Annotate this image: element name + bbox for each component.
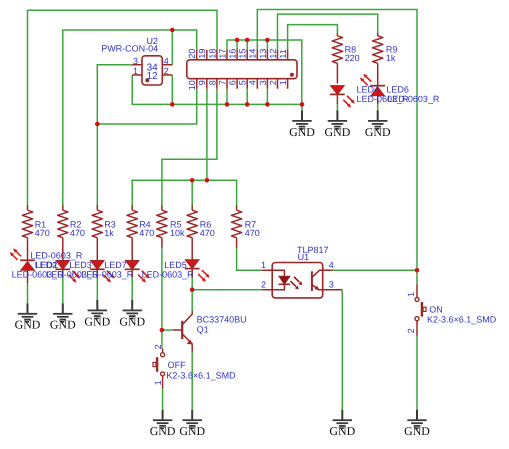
svg-text:19: 19: [197, 49, 207, 59]
wire Q1 emitter to GND: [191, 351, 193, 410]
wire header pin16 up to gnd line: [236, 40, 238, 50]
resistor R8: [336, 33, 338, 36]
svg-text:GND: GND: [404, 424, 430, 438]
op-amp U1 TLP817 optocoupler body: [272, 263, 323, 298]
junction pin16 / gnd line: [235, 38, 240, 43]
ground GND R3/LED3: [96, 300, 98, 310]
svg-text:1: 1: [406, 292, 416, 297]
LED LED2: [56, 261, 70, 270]
svg-text:2: 2: [268, 80, 278, 85]
LED LED3: [91, 261, 105, 270]
junction U2 pin2 / gnd bus: [170, 102, 175, 107]
wire U2 pin4 up to VCC2 line: [171, 30, 173, 65]
svg-text:1: 1: [133, 66, 138, 76]
wire U2 pin3 to R3 column: [97, 65, 132, 205]
wire LED1 to GND: [27, 282, 29, 303]
connector U2 PWR-CON-04: [142, 56, 162, 85]
svg-text:GND: GND: [15, 318, 41, 332]
LED LED4: [331, 86, 345, 95]
wire header pin3 to gnd bus: [266, 89, 268, 105]
switch OFF K2-3.6x6.1_SMD: [162, 349, 164, 353]
svg-text:ON: ON: [429, 304, 443, 314]
svg-text:2: 2: [153, 344, 163, 349]
svg-text:GND: GND: [325, 125, 351, 139]
junction gnd bus / GND: [300, 102, 305, 107]
svg-text:1: 1: [261, 260, 266, 270]
wire header pin10 down-left to R3 column: [97, 89, 196, 124]
svg-text:470: 470: [245, 228, 260, 238]
junction pin3 / gnd bus: [265, 102, 270, 107]
svg-text:9: 9: [197, 80, 207, 85]
junction R6 / mid bus: [190, 178, 195, 183]
wire mid bus R4/R6/pin9/R7: [132, 180, 236, 205]
wire header pin15 up to gnd line: [246, 40, 248, 50]
svg-text:GND: GND: [150, 424, 176, 438]
wire U1 pin4 right to opto node: [333, 269, 417, 271]
wire net VCC2: header pin20 up, across, down to R2: [63, 30, 197, 205]
wire LED3 to GND: [96, 277, 98, 300]
svg-text:K2-3.6×6.1_SMD: K2-3.6×6.1_SMD: [427, 315, 497, 325]
resistor R4: [131, 205, 133, 210]
wire gnd line over header pins 17-13 down to bus: [227, 40, 302, 110]
svg-text:10: 10: [187, 80, 197, 90]
svg-text:2: 2: [406, 328, 416, 333]
svg-text:K2-3.6×6.1_SMD: K2-3.6×6.1_SMD: [166, 370, 236, 380]
wire Q1 base: [162, 329, 173, 331]
svg-text:U1: U1: [298, 252, 310, 262]
U1 internal arrows: [294, 277, 299, 282]
svg-text:470: 470: [200, 228, 215, 238]
resistor R9: [377, 33, 379, 36]
U1 pin stubs: [262, 270, 342, 289]
svg-text:LED-0603_R: LED-0603_R: [387, 94, 440, 104]
transistor Q1 BC33740BU: [173, 329, 183, 331]
svg-text:4: 4: [248, 80, 258, 85]
resistor R6: [191, 205, 193, 210]
junction U1 pin4 / ON switch node: [415, 268, 420, 273]
wire header pin9 down to mid bus: [206, 89, 208, 181]
resistor R1: [27, 205, 29, 210]
wire LED4 to GND: [336, 104, 338, 111]
svg-text:GND: GND: [119, 314, 145, 328]
svg-text:3: 3: [133, 56, 138, 66]
svg-text:GND: GND: [179, 424, 205, 438]
svg-text:10k: 10k: [170, 228, 185, 238]
junction LED5 / U1 pin2 / Q1 collector: [190, 287, 195, 292]
svg-text:PWR-CON-04: PWR-CON-04: [101, 44, 158, 54]
svg-text:12: 12: [268, 49, 278, 59]
junction pin13 / gnd line: [265, 38, 270, 43]
svg-text:2: 2: [164, 66, 169, 76]
svg-text:OFF: OFF: [168, 360, 186, 370]
junction pin15 / gnd line: [245, 38, 250, 43]
wire U2 pin2 down to gnd bus: [171, 75, 173, 104]
svg-text:LED6: LED6: [386, 84, 409, 94]
wire net VCC1: header pin18 up, across top, down to R1: [28, 10, 218, 205]
wire R5 bottom to Q1 base node to OFF switch: [161, 248, 163, 349]
U1 phototransistor: [311, 271, 313, 291]
svg-text:GND: GND: [329, 424, 355, 438]
svg-text:4: 4: [164, 56, 169, 66]
ground GND R2/LED2: [62, 303, 64, 313]
wire R6 top from mid bus: [191, 180, 193, 205]
connector J1 20-pin header: [187, 60, 297, 79]
svg-text:GND: GND: [50, 318, 76, 332]
svg-text:3: 3: [329, 279, 334, 289]
svg-text:5: 5: [238, 80, 248, 85]
wire LED5 node down to Q1 collector: [191, 290, 193, 311]
svg-text:2: 2: [261, 279, 266, 289]
ground GND R8/LED4: [336, 110, 338, 120]
svg-text:16: 16: [228, 49, 238, 59]
ground GND ON switch: [416, 410, 418, 420]
wire LED7 to GND: [131, 277, 133, 300]
svg-text:470: 470: [70, 228, 85, 238]
ground GND U1 pin3: [341, 410, 343, 420]
resistor R2: [62, 205, 64, 210]
svg-text:1k: 1k: [386, 53, 396, 63]
junction pin7 / gnd bus: [225, 102, 230, 107]
wire gnd bus under U2/header: [132, 75, 302, 104]
svg-text:1: 1: [153, 380, 163, 385]
resistor R7: [236, 205, 238, 210]
resistor R5: [161, 205, 163, 210]
svg-text:LED-0603_R: LED-0603_R: [81, 269, 134, 279]
junction U2 pin4 / VCC2: [170, 28, 175, 33]
svg-text:13: 13: [258, 49, 268, 59]
wire header pin12 up and right to R9: [278, 14, 378, 50]
svg-text:3: 3: [258, 80, 268, 85]
junction pin9 / mid bus: [205, 178, 210, 183]
svg-text:1: 1: [278, 80, 288, 85]
svg-text:12: 12: [147, 71, 159, 82]
svg-text:Q1: Q1: [197, 324, 209, 334]
wire OFF switch pin1 to GND: [162, 389, 164, 410]
svg-text:220: 220: [345, 53, 360, 63]
ground GND header: [301, 110, 303, 120]
svg-text:LED4: LED4: [357, 84, 380, 94]
svg-text:1k: 1k: [104, 228, 114, 238]
svg-text:7: 7: [217, 80, 227, 85]
svg-text:GND: GND: [289, 125, 315, 139]
ground GND OFF switch: [162, 410, 164, 420]
ground GND R9/LED6: [377, 110, 379, 120]
LED LED7: [125, 261, 139, 270]
wire header pin8 down-left to R5: [162, 89, 217, 205]
svg-text:470: 470: [35, 228, 50, 238]
svg-text:LED-0603_R: LED-0603_R: [30, 251, 83, 261]
wire LED5 node to U1 pin2: [192, 277, 262, 290]
junction pin5 / gnd bus: [245, 102, 250, 107]
svg-text:GND: GND: [365, 125, 391, 139]
LED LED6: [371, 87, 385, 96]
wire R7 bottom to U1 pin1: [237, 248, 263, 271]
svg-text:470: 470: [139, 228, 154, 238]
svg-text:15: 15: [238, 49, 248, 59]
svg-text:6: 6: [228, 80, 238, 85]
ground GND R4/LED7: [131, 300, 133, 310]
wire header pin11 up and right to R8: [288, 25, 338, 50]
svg-text:20: 20: [187, 49, 197, 59]
wire LED2 to GND: [62, 277, 64, 303]
svg-text:LED-0603_R: LED-0603_R: [142, 269, 195, 279]
svg-text:GND: GND: [84, 314, 110, 328]
wire header pin13 up to gnd line: [266, 40, 268, 50]
svg-text:8: 8: [207, 80, 217, 85]
svg-text:BC33740BU: BC33740BU: [197, 315, 247, 325]
wire U1 pin3 down to GND: [341, 291, 343, 410]
wire ON switch pin2 down to GND: [416, 336, 418, 410]
wire header pin7 to gnd bus: [226, 89, 228, 105]
ground GND Q1 emitter: [191, 410, 193, 420]
svg-text:4: 4: [329, 260, 334, 270]
wire header pin5 to gnd bus: [246, 89, 248, 105]
ground GND R1/LED1: [27, 303, 29, 313]
switch ON K2-3.6x6.1_SMD: [416, 284, 418, 297]
svg-text:14: 14: [248, 49, 258, 59]
wire header pin14 up, across top right, down right side to opto node: [257, 10, 417, 285]
resistor R3: [96, 205, 98, 210]
LED LED1: [21, 262, 35, 271]
wire LED6 to GND: [377, 104, 379, 111]
U1 internal LED: [272, 270, 284, 276]
junction pin10 / R3 column: [95, 122, 100, 127]
svg-text:18: 18: [207, 49, 217, 59]
svg-text:17: 17: [217, 49, 227, 59]
svg-text:11: 11: [278, 49, 288, 58]
LED LED5: [185, 260, 199, 269]
junction Q1 base / OFF column: [160, 328, 165, 333]
